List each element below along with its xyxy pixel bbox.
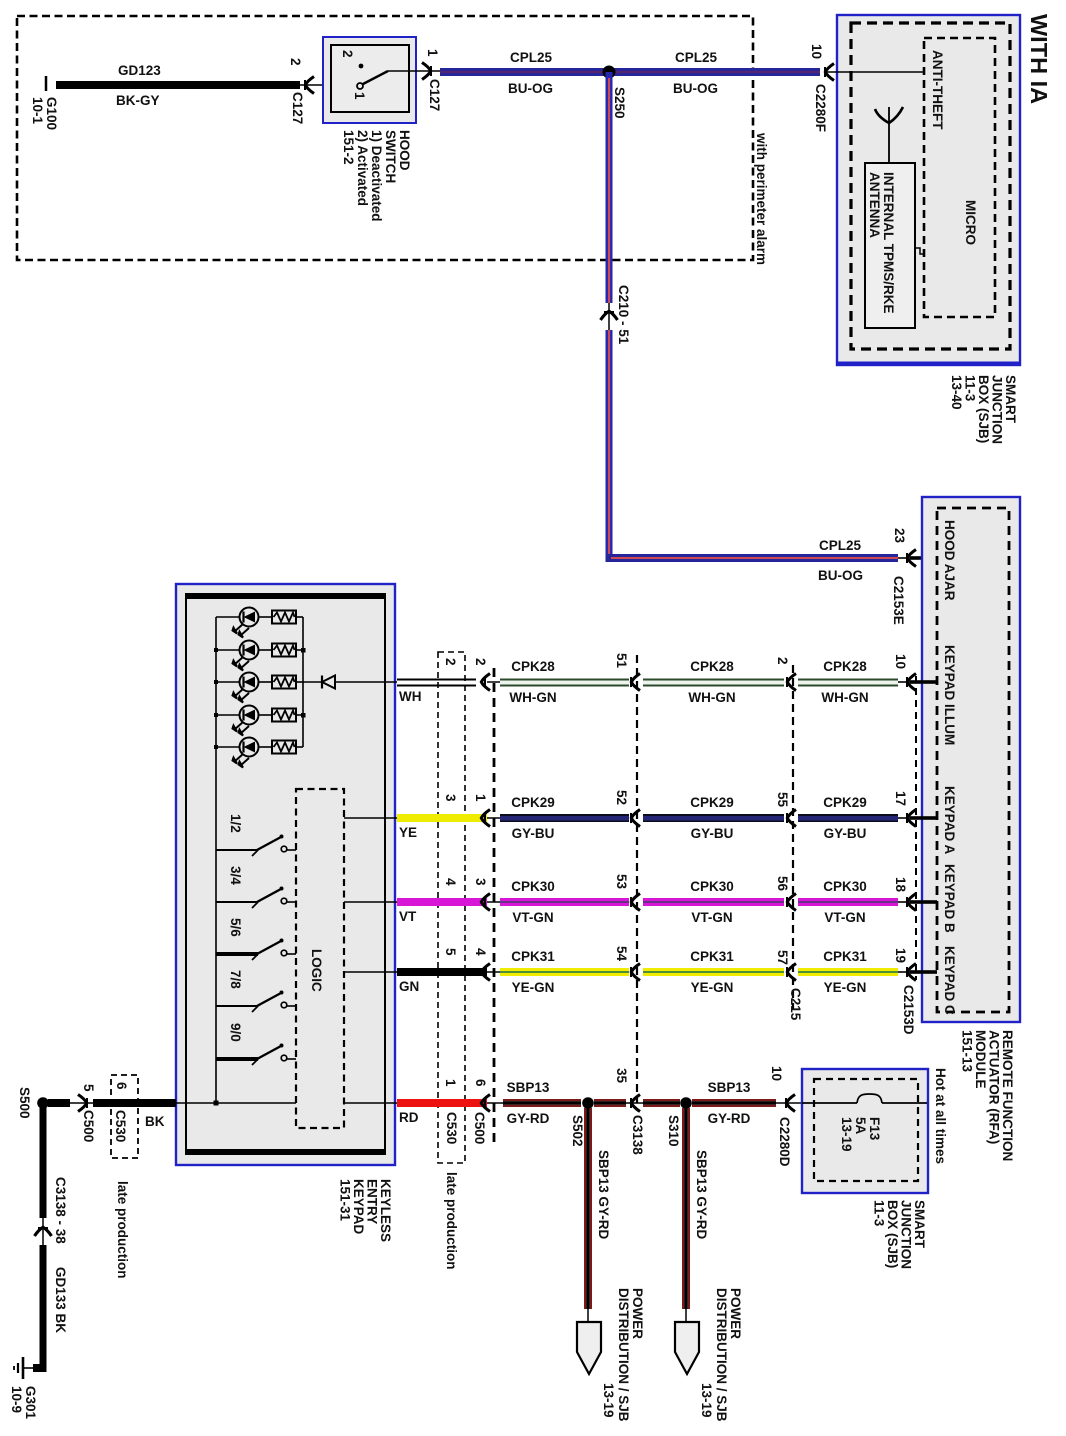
svg-text:C215: C215 xyxy=(788,988,803,1021)
row1 wire CPK28 WH-GN segment 1 xyxy=(500,659,629,705)
svg-text:10: 10 xyxy=(769,1066,784,1081)
svg-text:57: 57 xyxy=(775,950,790,965)
svg-text:GD133 BK: GD133 BK xyxy=(53,1267,68,1333)
svg-text:with perimeter alarm: with perimeter alarm xyxy=(754,132,769,265)
RFA pin name labels xyxy=(942,520,957,1015)
connector C2153D dashed line at RFA xyxy=(915,676,917,980)
row5 pins at C530/C500 xyxy=(443,1079,488,1087)
perimeter-alarm option dashed box xyxy=(17,16,753,260)
row5 arrow at C500 xyxy=(481,1095,503,1112)
svg-text:151-31: 151-31 xyxy=(338,1179,353,1222)
label WITH IA xyxy=(1026,14,1052,104)
svg-text:CPK30: CPK30 xyxy=(690,879,734,894)
wire CPL25 BU-OG vertical upper segment xyxy=(606,72,613,303)
svg-text:DISTRIBUTION / SJB: DISTRIBUTION / SJB xyxy=(714,1288,729,1422)
row5 wire RD keypad-to-C500 xyxy=(397,1099,487,1125)
row4 pins at C530/C500 xyxy=(443,948,488,956)
row2 arrow pin 17 at RFA xyxy=(893,791,937,827)
row3 arrow pin 56 xyxy=(775,876,796,911)
row3 wire CPK30 VT-GN segment 2 xyxy=(643,879,784,925)
svg-text:23: 23 xyxy=(892,528,907,544)
svg-text:INTERNAL TPMS/RKE: INTERNAL TPMS/RKE xyxy=(881,172,896,314)
row1 wire CPK28 WH-GN segment 2 xyxy=(643,659,784,705)
svg-text:10-1: 10-1 xyxy=(30,97,45,125)
row1 pins at C530/C500 xyxy=(443,658,488,666)
svg-text:HOOD AJAR: HOOD AJAR xyxy=(942,520,957,601)
connector arrow 5 C500 (BK wire) xyxy=(78,1084,96,1142)
row4 wire CPK31 YE-GN segment 1 xyxy=(500,949,629,995)
svg-text:WH-GN: WH-GN xyxy=(509,690,556,705)
svg-text:CPK28: CPK28 xyxy=(823,659,867,674)
svg-text:VT: VT xyxy=(399,909,417,924)
row3 wire CPK30 VT-GN segment 3 xyxy=(798,879,898,925)
svg-text:2: 2 xyxy=(775,657,790,665)
svg-text:S310: S310 xyxy=(666,1115,681,1147)
svg-text:WH: WH xyxy=(399,689,422,704)
connector C127 pin 1 arrow xyxy=(409,49,442,111)
LED row 1 xyxy=(216,608,272,638)
wire CPL25 BU-OG vertical lower segment xyxy=(606,330,613,561)
svg-text:2: 2 xyxy=(473,658,488,666)
svg-text:13-40: 13-40 xyxy=(949,375,964,410)
svg-text:3: 3 xyxy=(443,794,458,802)
svg-text:GY-RD: GY-RD xyxy=(708,1111,751,1126)
svg-text:CPK28: CPK28 xyxy=(690,659,734,674)
svg-text:9/0: 9/0 xyxy=(228,1023,243,1042)
svg-text:DISTRIBUTION / SJB: DISTRIBUTION / SJB xyxy=(616,1288,631,1422)
svg-text:1/2: 1/2 xyxy=(228,814,243,833)
svg-text:1: 1 xyxy=(425,49,440,57)
svg-text:BK-GY: BK-GY xyxy=(116,93,160,108)
svg-text:CPL25: CPL25 xyxy=(510,50,553,65)
svg-text:CPK31: CPK31 xyxy=(823,949,867,964)
svg-text:YE-GN: YE-GN xyxy=(691,980,734,995)
smart junction box SJB (top right) xyxy=(837,15,1020,365)
splice S250 xyxy=(603,66,628,119)
svg-text:CPK29: CPK29 xyxy=(511,795,555,810)
svg-text:7/8: 7/8 xyxy=(228,970,243,989)
svg-text:17: 17 xyxy=(893,791,908,806)
svg-text:4: 4 xyxy=(473,948,488,956)
svg-text:G100: G100 xyxy=(44,97,59,130)
label smart junction box (SJB) 11-3 xyxy=(872,1200,928,1269)
vertical wire SBP13 GY-RD from S310 xyxy=(682,1108,709,1309)
wire CPL25 BU-OG horizontal to RFA xyxy=(606,538,899,583)
svg-text:151-13: 151-13 xyxy=(960,1030,975,1073)
svg-text:CPK29: CPK29 xyxy=(823,795,867,810)
svg-text:SBP13: SBP13 xyxy=(507,1080,550,1095)
row1 arrow pin 2 xyxy=(775,657,796,691)
row1 arrow at C500 xyxy=(481,674,503,691)
svg-text:WITH IA: WITH IA xyxy=(1026,14,1052,104)
svg-text:KEYPAD B: KEYPAD B xyxy=(942,864,957,933)
row2 wire CPK29 GY-BU segment 2 xyxy=(643,795,784,841)
hood switch contacts and lever xyxy=(340,50,409,100)
svg-text:53: 53 xyxy=(614,874,629,890)
keypad left bus wire xyxy=(214,617,218,1103)
resistor row 1 xyxy=(272,611,303,624)
svg-text:CPK29: CPK29 xyxy=(690,795,734,810)
row4 arrow pin 19 at RFA xyxy=(893,948,937,981)
svg-text:5A: 5A xyxy=(853,1117,868,1135)
svg-text:POWER: POWER xyxy=(728,1288,743,1339)
LED row 2 xyxy=(216,641,272,671)
resistor row 2 xyxy=(272,644,306,657)
logic output wires to keypad edge xyxy=(344,818,397,1103)
resistor row 3 xyxy=(272,676,303,689)
svg-text:2) Activated: 2) Activated xyxy=(355,130,370,206)
svg-text:BU-OG: BU-OG xyxy=(508,81,553,96)
svg-text:C500: C500 xyxy=(472,1112,487,1144)
switch 5/6 xyxy=(216,918,296,960)
svg-text:MICRO: MICRO xyxy=(963,200,978,245)
svg-text:CPK30: CPK30 xyxy=(511,879,555,894)
row3 wire CPK30 VT-GN segment 1 xyxy=(500,879,629,925)
svg-text:6: 6 xyxy=(473,1079,488,1087)
label: with perimeter alarm xyxy=(754,132,769,265)
anti-theft wire into SJB xyxy=(809,44,924,132)
svg-text:G301: G301 xyxy=(23,1386,38,1420)
svg-text:YE: YE xyxy=(399,825,417,840)
row1 arrow pin 10 at RFA xyxy=(893,654,937,691)
svg-text:10-9: 10-9 xyxy=(9,1386,24,1413)
svg-text:4: 4 xyxy=(443,878,458,886)
off-page arrow right (power distribution) xyxy=(675,1288,743,1422)
label G100 10-1 xyxy=(30,97,59,130)
wire GD133 BK vertical upper xyxy=(40,1108,47,1218)
svg-text:YE-GN: YE-GN xyxy=(512,980,555,995)
svg-text:LOGIC: LOGIC xyxy=(309,949,324,992)
svg-text:13-19: 13-19 xyxy=(601,1383,616,1418)
keypad connector C530 dashed box xyxy=(438,652,465,1270)
ground G301 xyxy=(9,1357,43,1420)
svg-text:HOOD: HOOD xyxy=(397,130,412,171)
keyless entry keypad box xyxy=(176,584,395,1165)
fuse F13 5A xyxy=(802,1094,927,1152)
row3 wire VT keypad-to-C500 xyxy=(397,898,487,924)
row2 arrow pin 52 xyxy=(614,790,640,827)
row1 wire WH inside-to-C500 xyxy=(397,680,476,705)
wire GD133 BK vertical lower xyxy=(40,1245,69,1372)
row4 arrow at C500 xyxy=(481,964,503,981)
svg-text:18: 18 xyxy=(893,877,908,893)
resistor row 4 xyxy=(272,709,306,722)
splice S310 xyxy=(666,1097,692,1146)
row2 wire YE keypad-to-C500 xyxy=(397,814,487,840)
splice S502 xyxy=(570,1097,594,1146)
svg-text:11-3: 11-3 xyxy=(872,1200,887,1227)
svg-text:POWER: POWER xyxy=(630,1288,645,1339)
svg-text:5: 5 xyxy=(443,948,458,956)
ANTI-THEFT pin label xyxy=(930,50,945,130)
svg-text:VT-GN: VT-GN xyxy=(512,910,553,925)
svg-text:CPL25: CPL25 xyxy=(675,50,718,65)
vertical wire SBP13 GY-RD from S502 xyxy=(584,1108,611,1309)
LED row 3 xyxy=(216,673,272,703)
svg-text:6: 6 xyxy=(114,1082,129,1090)
LED row 5 xyxy=(216,738,272,768)
keypad right bus wire xyxy=(302,617,304,747)
row4 arrow pin 54 xyxy=(614,946,640,981)
svg-text:KEYPAD C: KEYPAD C xyxy=(942,946,957,1015)
svg-text:C2153D: C2153D xyxy=(901,985,916,1035)
svg-text:3/4: 3/4 xyxy=(228,866,243,885)
svg-text:5: 5 xyxy=(81,1084,96,1092)
row3 arrow pin 18 at RFA xyxy=(893,877,937,911)
svg-text:52: 52 xyxy=(614,790,629,805)
LED row 4 xyxy=(216,706,272,736)
svg-text:KEYPAD ILLUM: KEYPAD ILLUM xyxy=(942,645,957,745)
svg-text:C530: C530 xyxy=(113,1110,128,1142)
svg-text:C3138: C3138 xyxy=(630,1115,645,1155)
label smart junction box (SJB) 11-3 13-40 xyxy=(949,375,1018,444)
row4 arrow pin 57 xyxy=(775,950,796,981)
hood switch box xyxy=(323,37,416,123)
wire CPL25 BU-OG horizontal top xyxy=(440,50,820,96)
svg-text:GY-BU: GY-BU xyxy=(824,826,867,841)
svg-text:VT-GN: VT-GN xyxy=(824,910,865,925)
svg-text:Hot at all times: Hot at all times xyxy=(933,1068,948,1164)
svg-text:2: 2 xyxy=(443,658,458,666)
label C2153D xyxy=(901,985,916,1035)
wire GD123 BK-GY xyxy=(56,63,300,108)
row3 arrow at C500 xyxy=(481,894,503,911)
row4 wire CPK31 YE-GN segment 3 xyxy=(798,949,898,995)
svg-text:C2153E: C2153E xyxy=(891,576,906,625)
svg-text:C2280F: C2280F xyxy=(813,84,828,132)
resistor row 5 xyxy=(272,741,303,754)
row5 wire SBP13 GY-RD segment 1 xyxy=(503,1080,581,1126)
connector C530 dashed box (BK wire) xyxy=(111,1075,138,1279)
svg-text:BU-OG: BU-OG xyxy=(818,568,863,583)
svg-text:151-2: 151-2 xyxy=(341,130,356,165)
svg-text:13-19: 13-19 xyxy=(699,1383,714,1418)
off-page arrow left (power distribution) xyxy=(577,1288,645,1422)
svg-text:51: 51 xyxy=(614,653,629,669)
svg-text:C2280D: C2280D xyxy=(777,1117,792,1167)
svg-text:BU-OG: BU-OG xyxy=(673,81,718,96)
svg-text:SBP13: SBP13 xyxy=(708,1080,751,1095)
row2 wire CPK29 GY-BU segment 1 xyxy=(500,795,629,841)
svg-text:GY-BU: GY-BU xyxy=(512,826,555,841)
svg-text:C127: C127 xyxy=(427,79,442,111)
svg-text:ANTI-THEFT: ANTI-THEFT xyxy=(930,50,945,130)
svg-text:3: 3 xyxy=(473,878,488,886)
diode row 3 xyxy=(303,676,397,689)
svg-text:GD123: GD123 xyxy=(118,63,161,78)
svg-text:1) Deactivated: 1) Deactivated xyxy=(369,130,384,222)
row5 wire SBP13 segment 3 xyxy=(643,1099,680,1107)
svg-text:CPL25: CPL25 xyxy=(819,538,862,553)
LOGIC dashed box xyxy=(296,789,344,1128)
switch 7/8 xyxy=(216,970,296,1012)
label hot at all times xyxy=(933,1068,948,1164)
row2 arrow pin 55 xyxy=(775,792,796,827)
svg-text:C500: C500 xyxy=(81,1110,96,1142)
SJB outer dashed boundary xyxy=(851,23,1010,349)
connector C2153E pin 23 arrow xyxy=(891,528,937,625)
switch 9/0 xyxy=(216,1023,296,1065)
svg-text:SWITCH: SWITCH xyxy=(383,130,398,183)
svg-text:19: 19 xyxy=(893,948,908,963)
row2 wire CPK29 GY-BU segment 3 xyxy=(798,795,898,841)
svg-text:S502: S502 xyxy=(570,1115,585,1147)
svg-text:54: 54 xyxy=(614,946,629,962)
svg-text:F13: F13 xyxy=(867,1117,882,1141)
row3 pins at C530/C500 xyxy=(443,878,488,886)
keypad internal ground line xyxy=(176,1101,296,1106)
svg-text:5/6: 5/6 xyxy=(228,918,243,937)
row5 arrow pin 35 at C3138 xyxy=(614,1068,645,1155)
connector C127 pin 2 arrow xyxy=(288,58,331,124)
svg-text:CPK31: CPK31 xyxy=(690,949,734,964)
svg-text:55: 55 xyxy=(775,792,790,808)
svg-text:SBP13 GY-RD: SBP13 GY-RD xyxy=(694,1150,709,1240)
row5 wire SBP13 segment 4 xyxy=(692,1080,776,1126)
svg-text:late production: late production xyxy=(115,1181,130,1279)
row3 arrow pin 53 xyxy=(614,874,640,911)
svg-text:1: 1 xyxy=(443,1079,458,1087)
svg-text:1: 1 xyxy=(473,794,488,802)
connector C3138 dashed line (mid) xyxy=(636,655,638,1103)
svg-text:56: 56 xyxy=(775,876,790,892)
link antenna box to micro xyxy=(915,248,924,254)
svg-text:KEYPAD A: KEYPAD A xyxy=(942,786,957,855)
keypad connector C500 dashed line xyxy=(472,668,494,1147)
ground G100 terminal tick xyxy=(45,76,48,91)
svg-text:10: 10 xyxy=(893,654,908,669)
svg-text:GY-RD: GY-RD xyxy=(507,1111,550,1126)
svg-text:BK: BK xyxy=(145,1114,165,1129)
connector C215 dashed line (mid) xyxy=(788,665,803,1021)
antenna symbol xyxy=(875,107,903,163)
svg-text:C530: C530 xyxy=(444,1112,459,1144)
svg-text:S500: S500 xyxy=(17,1087,32,1119)
row2 pins at C530/C500 xyxy=(443,794,488,802)
internal TPMS/RKE antenna box xyxy=(865,163,915,328)
svg-text:13-19: 13-19 xyxy=(839,1117,854,1152)
row5 arrow pin 10 at C2280D xyxy=(769,1066,802,1167)
row4 wire CPK31 YE-GN segment 2 xyxy=(643,949,784,995)
svg-text:1: 1 xyxy=(352,92,367,100)
remote function actuator RFA module box xyxy=(922,497,1020,1022)
svg-text:WH-GN: WH-GN xyxy=(688,690,735,705)
svg-text:late production: late production xyxy=(444,1172,459,1270)
svg-text:GN: GN xyxy=(399,979,419,994)
svg-text:GY-BU: GY-BU xyxy=(691,826,734,841)
row1 wire CPK28 WH-GN segment 3 xyxy=(798,659,898,705)
switch 3/4 xyxy=(216,866,296,908)
svg-text:C210 - 51: C210 - 51 xyxy=(616,285,631,345)
svg-text:2: 2 xyxy=(340,50,355,58)
svg-text:C127: C127 xyxy=(290,92,305,124)
svg-text:S250: S250 xyxy=(612,87,627,119)
row2 arrow at C500 xyxy=(481,810,503,827)
row5 wire SBP13 segment 2 xyxy=(594,1099,626,1107)
svg-text:ANTENNA: ANTENNA xyxy=(867,172,882,238)
svg-text:CPK30: CPK30 xyxy=(823,879,867,894)
wire BK keypad to S500 xyxy=(48,1099,176,1129)
label hood switch xyxy=(341,130,412,222)
MICRO dashed box xyxy=(924,38,995,317)
svg-text:CPK31: CPK31 xyxy=(511,949,555,964)
svg-text:2: 2 xyxy=(288,58,303,66)
row4 wire GN keypad-to-C500 xyxy=(397,968,487,994)
label remote function actuator module xyxy=(960,1030,1016,1161)
in-line connector C3138-38 xyxy=(35,1177,69,1245)
svg-text:RD: RD xyxy=(399,1110,419,1125)
svg-text:YE-GN: YE-GN xyxy=(824,980,867,995)
svg-text:10: 10 xyxy=(809,44,824,59)
svg-text:CPK28: CPK28 xyxy=(511,659,555,674)
svg-text:VT-GN: VT-GN xyxy=(691,910,732,925)
svg-text:SBP13 GY-RD: SBP13 GY-RD xyxy=(596,1150,611,1240)
svg-text:WH-GN: WH-GN xyxy=(821,690,868,705)
splice S500 xyxy=(17,1087,49,1119)
svg-text:35: 35 xyxy=(614,1068,629,1084)
switch 1/2 xyxy=(216,814,296,856)
in-line connector C210 pin 51 xyxy=(601,285,632,345)
row1 arrow pin 51 xyxy=(614,653,640,691)
label keyless entry keypad 151-31 xyxy=(338,1179,394,1242)
svg-text:C3138 - 38: C3138 - 38 xyxy=(53,1177,68,1244)
fuse box SJB (bottom) xyxy=(802,1069,928,1193)
